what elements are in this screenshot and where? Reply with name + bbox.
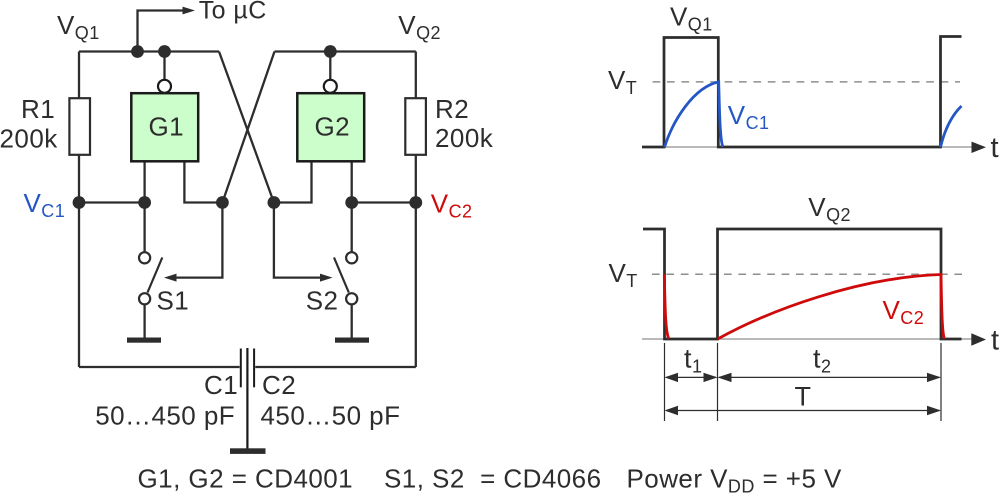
- svg-text:G1: G1: [149, 112, 185, 142]
- time axis arrowhead (top plot): [972, 142, 987, 153]
- gate G1 box: [131, 93, 198, 161]
- threshold dashed line VT (bottom plot): [652, 273, 962, 275]
- node VC1 at R1: [73, 196, 86, 209]
- time axis arrowhead (bottom plot): [971, 333, 986, 345]
- svg-text:S1, S2 = CD4066: S1, S2 = CD4066: [384, 463, 602, 493]
- gate G2 box: [297, 93, 364, 161]
- gate G1 inverter bubble: [158, 80, 171, 93]
- svg-text:C1: C1: [204, 370, 238, 400]
- svg-text:200k: 200k: [0, 124, 58, 154]
- svg-text:To µC: To µC: [199, 0, 267, 24]
- wire bottom right from C2: [255, 366, 415, 368]
- svg-text:200k: 200k: [435, 123, 494, 153]
- switch S1: [139, 252, 162, 304]
- dimension arrow t2: [718, 373, 942, 382]
- node VC1 at G1 input: [138, 196, 151, 209]
- node G1 output: [158, 45, 171, 58]
- svg-text:G2: G2: [315, 112, 351, 142]
- VC1 charging curve (blue, second pulse): [941, 106, 962, 147]
- time axis (bottom plot): [642, 338, 972, 340]
- wire riser to microcontroller: [138, 11, 184, 52]
- ground under S1: [127, 338, 161, 343]
- wire S1 lower lead: [143, 305, 145, 337]
- svg-text:t: t: [991, 325, 1000, 357]
- resistor R2 body: [405, 98, 426, 155]
- node VC2 at R2: [409, 196, 422, 209]
- wire G1 left input: [143, 162, 145, 203]
- VC1 charging curve (blue, first pulse): [665, 82, 723, 147]
- gate G2 inverter bubble: [324, 80, 337, 93]
- node junction dots: [73, 45, 423, 209]
- wire G1 output to bubble: [163, 52, 165, 80]
- dimension arrow t1: [665, 373, 718, 382]
- VQ2 square wave (bottom plot): [643, 229, 962, 339]
- node VC2 at G2 input: [345, 196, 358, 209]
- dimension arrow T: [665, 406, 942, 415]
- wire node to S2: [351, 203, 353, 252]
- svg-text:C2: C2: [262, 370, 296, 400]
- svg-text:S2: S2: [306, 286, 339, 316]
- svg-text:S1: S1: [157, 286, 190, 316]
- VC2 discharge tail (red, left): [664, 274, 669, 339]
- wire bottom left to C1: [79, 366, 240, 368]
- svg-text:50…450 pF: 50…450 pF: [95, 400, 235, 430]
- wire left vertical R1 branch upper: [78, 52, 80, 99]
- svg-text:t: t: [991, 132, 1000, 164]
- wire G2 right input: [351, 162, 353, 203]
- svg-text:R2: R2: [435, 94, 469, 124]
- time axis (top plot): [642, 146, 972, 148]
- wire S2 lower lead: [351, 305, 353, 337]
- ground under capacitors: [230, 448, 266, 454]
- wire cross-coupling diagonal from VQ2 net down to G1 input node: [222, 52, 274, 203]
- arrow S2 control head: [320, 274, 333, 282]
- threshold dashed line VT (top plot): [653, 81, 960, 83]
- ground under S2: [335, 338, 369, 343]
- wire top-right horizontal (VQ2 net): [275, 50, 416, 52]
- wire S1 control with bend: [176, 203, 222, 278]
- resistor R1 body: [69, 98, 90, 155]
- capacitor C1 left plate: [240, 349, 242, 388]
- wire right vertical R2 branch upper: [415, 52, 417, 99]
- wire G2 left input with bend: [274, 162, 312, 203]
- arrow S1 control head: [164, 274, 177, 282]
- node S2 control: [268, 196, 281, 209]
- wire cross-coupling diagonal from VQ1 net down to G2 input node: [219, 52, 274, 203]
- wire VC1 row: [79, 201, 145, 203]
- wire G1 right input with bend: [184, 162, 222, 203]
- wire S2 control with bend: [274, 203, 321, 278]
- wire G2 output to bubble: [329, 52, 331, 80]
- wire left vertical R1 branch lower: [78, 155, 80, 367]
- arrow to microcontroller: [183, 7, 196, 15]
- dimension extension line at pulse rise: [717, 343, 719, 421]
- wire right vertical R2 branch lower: [415, 155, 417, 367]
- wire top-left horizontal (VQ1 net): [79, 50, 219, 52]
- dimension extension line at pulse fall t0: [664, 343, 666, 421]
- node G2 output: [324, 45, 337, 58]
- svg-text:450…50 pF: 450…50 pF: [261, 400, 401, 430]
- wire VC2 row: [352, 201, 416, 203]
- svg-text:R1: R1: [21, 94, 55, 124]
- svg-text:G1, G2 = CD4001: G1, G2 = CD4001: [138, 463, 354, 493]
- switch S2: [334, 252, 357, 304]
- node S1 control: [216, 196, 229, 209]
- capacitor C2 right plate: [253, 349, 255, 388]
- dimension extension line at pulse fall t2 end: [940, 343, 942, 421]
- svg-text:T: T: [795, 382, 812, 412]
- VQ1 square wave (top plot): [642, 37, 962, 148]
- VC2 charging curve (red): [718, 275, 945, 340]
- capacitor common plate / ground lead: [246, 348, 248, 449]
- node VQ1 tap to uC: [131, 45, 144, 58]
- wire node to S1: [143, 203, 145, 252]
